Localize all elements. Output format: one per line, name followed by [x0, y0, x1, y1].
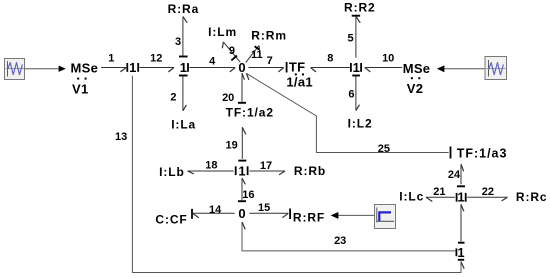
svg-text:6: 6: [348, 89, 354, 101]
svg-text:25: 25: [378, 143, 390, 155]
svg-text:I:Lm: I:Lm: [208, 25, 237, 39]
bond 12 (J1 to J2): [139, 53, 174, 72]
svg-text:R:R2: R:R2: [344, 1, 376, 15]
svg-text:7: 7: [267, 55, 273, 67]
svg-text:TF:1/a2: TF:1/a2: [226, 106, 274, 120]
bond 16 (J1b down to 0b): [238, 178, 255, 201]
svg-text:V2: V2: [407, 81, 424, 96]
svg-text:1: 1: [457, 245, 464, 260]
svg-text:1: 1: [353, 60, 360, 75]
svg-text:R:Rm: R:Rm: [251, 28, 287, 42]
TF 1/a1 transformer label: [286, 60, 313, 90]
svg-text:R:Rb: R:Rb: [294, 164, 326, 178]
MSe V1 source label: [71, 61, 99, 97]
svg-text:16: 16: [242, 189, 254, 201]
bond 23 (J0b to J1d, routed): [242, 222, 455, 251]
MSe V2 source label: [403, 61, 431, 96]
svg-text:13: 13: [115, 131, 127, 143]
causal stroke bond 18 at J1b: [235, 166, 237, 175]
bond 3 (J2 up to R:Ra): [175, 17, 188, 57]
svg-text:R:RF: R:RF: [293, 210, 325, 224]
bond 14 (0b to C:CF): [192, 204, 235, 219]
bond 5 (J1r up to R:R2): [348, 16, 361, 58]
causal stroke bond 1 at junction: [126, 63, 128, 72]
svg-text:I:Lc: I:Lc: [399, 190, 424, 204]
bond 9 (0-junction up-left to I:Lm): [222, 42, 240, 62]
svg-text:3: 3: [175, 36, 181, 48]
causal stroke bond 10 at J1r: [360, 63, 362, 72]
svg-text:MSe: MSe: [403, 61, 431, 76]
svg-text:23: 23: [334, 235, 346, 247]
bond J1c to J1d (vertical): [458, 204, 465, 243]
causal stroke bond 23 at J1d: [455, 248, 457, 256]
bond 25 (0-junction to TF:1/a3, routed): [246, 73, 450, 158]
svg-text:1: 1: [238, 163, 245, 178]
svg-text:1: 1: [457, 190, 464, 205]
svg-text:TF: TF: [289, 60, 305, 75]
bond 2 (J2 down to I:La): [170, 76, 187, 111]
bond 15 (0b to R:RF): [249, 202, 290, 219]
causal stroke bond 21 at J1c: [456, 193, 458, 202]
svg-text:1/a1: 1/a1: [286, 75, 313, 90]
svg-text:2: 2: [170, 92, 176, 104]
bond 21 (J1c to I:Lc): [426, 186, 455, 201]
svg-text:0: 0: [238, 206, 245, 221]
svg-text:R:Ra: R:Ra: [168, 2, 200, 16]
causal stroke bond 8 at J1r: [350, 63, 352, 72]
svg-text:12: 12: [150, 53, 162, 65]
bond 24 (TF:1/a3 down to J1c): [448, 164, 465, 186]
bond 7 (0-junction to TF:1/a1): [249, 55, 287, 73]
svg-text:20: 20: [222, 92, 234, 104]
svg-text:15: 15: [258, 202, 270, 214]
svg-text:C:CF: C:CF: [155, 212, 187, 226]
bond 22 (J1c to R:Rc): [467, 186, 507, 201]
svg-text:18: 18: [205, 160, 217, 172]
svg-text:21: 21: [433, 186, 445, 198]
bond 4 (J2 to 0-junction): [189, 56, 235, 72]
svg-text:5: 5: [348, 33, 354, 45]
bond 13 (J1 down and around to J1d): [115, 76, 464, 273]
svg-text:24: 24: [448, 169, 461, 181]
svg-text:0: 0: [238, 60, 245, 75]
bond 6 (J1r down to I:L2): [348, 76, 360, 111]
wire from V1 icon to MSe with solid arrow: [25, 66, 66, 72]
svg-text:1: 1: [129, 60, 136, 75]
svg-text:17: 17: [260, 160, 272, 172]
source icon V2 (sine generator): [485, 57, 507, 80]
svg-text:11: 11: [251, 49, 263, 61]
svg-text:14: 14: [209, 204, 222, 216]
svg-text:V1: V1: [72, 82, 89, 97]
bond 8 (J1r to TF:1/a1): [311, 53, 351, 72]
bond 17 (J1b to R:Rb): [249, 160, 285, 175]
svg-text:TF:1/a3: TF:1/a3: [457, 146, 508, 160]
step source icon: [375, 205, 396, 229]
wire from V2 icon to MSe with solid arrow: [437, 65, 485, 72]
svg-text:9: 9: [229, 45, 235, 57]
causal stroke bond 4 at J2: [187, 63, 189, 72]
svg-text:19: 19: [225, 139, 237, 151]
bond 18 (J1b to I:Lb): [188, 160, 234, 174]
bond 1 (MSe to 1-junction): [101, 53, 126, 72]
bond 19 (TF:1/a2 down to J1b): [225, 127, 246, 160]
causal stroke bond 22 at J1c: [465, 193, 467, 202]
svg-text:R:Rc: R:Rc: [516, 190, 548, 204]
svg-text:I:Lb: I:Lb: [159, 165, 185, 179]
svg-text:1: 1: [108, 53, 114, 65]
svg-text:4: 4: [209, 56, 216, 68]
bond 10 (MSe V2 to J1r): [365, 53, 402, 72]
svg-text:I:L2: I:L2: [348, 117, 373, 131]
svg-text:1: 1: [180, 60, 187, 75]
source icon V1 (sine generator): [5, 59, 25, 80]
causal stroke bond 12 at J1: [137, 63, 139, 72]
wire from step icon to R:RF with solid arrow: [331, 212, 374, 219]
svg-text:10: 10: [382, 53, 394, 65]
bond 11 (0-junction up-right to R:Rm): [246, 46, 263, 63]
svg-text:22: 22: [482, 186, 494, 198]
svg-text:I:La: I:La: [171, 117, 196, 131]
svg-text:MSe: MSe: [71, 61, 99, 76]
causal stroke bond 17 at J1b: [247, 166, 249, 175]
bond 20 (0-junction down to TF:1/a2): [222, 73, 246, 104]
svg-text:8: 8: [327, 53, 333, 65]
